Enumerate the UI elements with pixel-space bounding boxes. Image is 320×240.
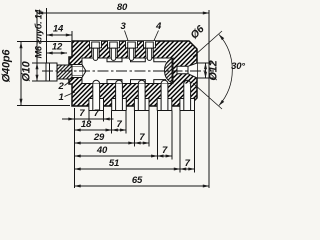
svg-text:Ø40р6: Ø40р6: [1, 49, 13, 83]
bottom pin 4: [161, 80, 168, 110]
screw plug item 2 : head: [46, 63, 57, 81]
neck 2: [131, 58, 146, 84]
bottom pin 5: [184, 80, 191, 110]
dia12 dimension: [198, 60, 220, 80]
top slot 1: [90, 41, 102, 57]
cone 30 deg: [188, 63, 197, 78]
dimension 80: [37, 2, 209, 13]
item label 1: [58, 92, 75, 103]
right plug small hole: [177, 66, 188, 73]
extension line left of 80 / dia10 dim line: [36, 10, 38, 63]
svg-text:2: 2: [57, 81, 64, 92]
dia6 label: [188, 23, 206, 41]
dimension 40 row: [75, 145, 172, 156]
dia40p6 dimension: [1, 41, 72, 105]
top screw 4: [146, 42, 154, 60]
extension line right common: [208, 10, 210, 188]
screw plug item 2 : shank: [57, 65, 82, 80]
svg-text:30°: 30°: [231, 61, 245, 72]
bottom slot 5: [180, 84, 195, 111]
svg-text:18: 18: [81, 119, 92, 130]
item label 4: [154, 21, 162, 41]
svg-text:7: 7: [139, 132, 145, 143]
item label 3: [120, 21, 128, 41]
svg-text:40: 40: [96, 145, 108, 156]
svg-text:7: 7: [79, 108, 85, 119]
centerline: [42, 70, 214, 72]
neck 1: [107, 58, 122, 84]
dia10 dimension: [21, 60, 47, 81]
bottom slot 3: [134, 84, 149, 111]
svg-text:Ø12: Ø12: [208, 60, 220, 80]
threaded hole M6: [69, 65, 86, 78]
dimension 65 row: [75, 175, 210, 186]
top slot 2: [108, 41, 120, 57]
top slot 4: [144, 41, 156, 57]
bottom pin 3: [138, 80, 145, 110]
extension lines for ladder: [75, 108, 195, 188]
right plug dome: [165, 58, 174, 84]
neck 3: [154, 58, 166, 84]
chamber edge: [81, 58, 83, 84]
svg-text:М6 глуб. 14: М6 глуб. 14: [34, 9, 44, 58]
svg-text:7: 7: [162, 145, 168, 156]
svg-text:12: 12: [52, 42, 63, 53]
svg-text:80: 80: [117, 2, 128, 13]
dimension 29 row: [75, 132, 150, 143]
top screw 2: [110, 42, 118, 60]
dimension 18 row: [75, 119, 127, 130]
svg-text:7: 7: [94, 108, 100, 119]
bottom pin 1: [93, 80, 100, 110]
30 degree cone dimension: [193, 31, 245, 109]
extension line M6 hole face: [46, 8, 48, 63]
svg-text:51: 51: [109, 158, 119, 169]
svg-text:65: 65: [132, 175, 143, 186]
top screw 3: [128, 42, 136, 60]
bottom slot 2: [112, 84, 127, 111]
item label 2: [57, 81, 71, 93]
top slot 3: [126, 41, 138, 57]
dimension 51 row: [75, 158, 195, 169]
dimension 14: [47, 24, 73, 42]
svg-text:4: 4: [155, 21, 162, 32]
top screw 1: [92, 42, 100, 60]
svg-text:Ø10: Ø10: [21, 60, 33, 81]
central bore white: [82, 58, 172, 84]
bottom slot 4: [157, 84, 172, 111]
svg-text:14: 14: [53, 24, 64, 35]
dimension 7 7 row: [62, 108, 114, 119]
dimension 12: [47, 42, 68, 54]
body silhouette hatched: [69, 41, 197, 106]
bore outline: [82, 58, 172, 84]
svg-text:29: 29: [93, 132, 105, 143]
bottom slot 1: [89, 84, 104, 111]
svg-text:1: 1: [58, 92, 63, 103]
bottom pin 2: [116, 80, 123, 110]
